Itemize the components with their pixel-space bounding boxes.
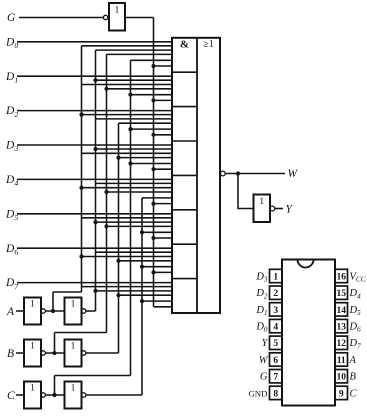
pin 13 (D6) bbox=[335, 319, 361, 333]
svg-text:11: 11 bbox=[337, 356, 346, 366]
inverter U8 (Y output) bbox=[254, 195, 275, 223]
svg-text:C: C bbox=[350, 388, 358, 399]
svg-text:1: 1 bbox=[30, 384, 35, 394]
node W junction bbox=[236, 171, 240, 175]
wire A true output bbox=[86, 310, 96, 312]
wire D3 to AND gate 4 bbox=[17, 144, 172, 146]
wire G input bbox=[19, 17, 104, 19]
wire D7 to AND gate 8 bbox=[17, 282, 172, 284]
svg-text:≥1: ≥1 bbox=[203, 39, 214, 50]
wire C true output bbox=[86, 394, 142, 396]
net G-bar (wiring + taps) bbox=[151, 18, 172, 307]
net B (wiring + taps) bbox=[116, 123, 172, 353]
svg-text:9: 9 bbox=[339, 389, 344, 399]
net B-bar (wiring + taps) bbox=[55, 54, 173, 353]
inverter U5 (B second) bbox=[65, 340, 86, 367]
svg-text:G: G bbox=[7, 12, 16, 24]
pin 4 (D0) bbox=[255, 319, 282, 333]
pin 7 (G) bbox=[260, 370, 282, 383]
package notch bbox=[298, 260, 314, 268]
pin 8 (GND) bbox=[248, 386, 282, 399]
svg-text:4: 4 bbox=[273, 323, 278, 333]
svg-text:1: 1 bbox=[115, 6, 120, 16]
svg-text:W: W bbox=[288, 168, 299, 180]
svg-text:GND: GND bbox=[248, 388, 267, 398]
svg-text:1: 1 bbox=[71, 342, 76, 352]
inverter U6 (C first) bbox=[24, 382, 45, 409]
svg-text:5: 5 bbox=[273, 339, 278, 349]
wire U1 output to G-bar bus bbox=[125, 17, 154, 19]
node B-bar junction bbox=[52, 351, 56, 355]
wire D0 to AND gate 1 bbox=[17, 41, 172, 43]
pin 3 (D1) bbox=[255, 303, 282, 317]
wire B-bar node bbox=[45, 352, 64, 354]
svg-text:G: G bbox=[260, 372, 268, 383]
inverter U7 (C second) bbox=[65, 382, 86, 409]
wire A-bar node bbox=[45, 310, 64, 312]
pin 10 (B) bbox=[335, 370, 357, 383]
svg-text:10: 10 bbox=[336, 373, 346, 383]
IC package body (DIP-16) bbox=[282, 260, 335, 406]
wire D6 to AND gate 7 bbox=[17, 247, 172, 249]
wire B true output bbox=[86, 352, 119, 354]
svg-text:C: C bbox=[7, 390, 15, 402]
wire B input bbox=[16, 352, 24, 354]
svg-text:8: 8 bbox=[273, 389, 278, 399]
svg-text:1: 1 bbox=[30, 300, 35, 310]
svg-text:1: 1 bbox=[71, 300, 76, 310]
node A-bar junction bbox=[51, 309, 55, 313]
svg-text:B: B bbox=[7, 348, 14, 360]
pin 2 (D2) bbox=[255, 286, 282, 300]
inverter U4 (B first) bbox=[24, 340, 45, 367]
OR output bubble bbox=[220, 171, 225, 176]
svg-text:1: 1 bbox=[259, 197, 264, 207]
pin 5 (Y) bbox=[262, 336, 282, 349]
svg-text:3: 3 bbox=[273, 306, 278, 316]
pin 15 (D4) bbox=[335, 286, 361, 300]
svg-text:16: 16 bbox=[336, 272, 346, 282]
svg-text:1: 1 bbox=[71, 384, 76, 394]
inverter U1 (strobe G) bbox=[103, 3, 125, 31]
net C-bar (wiring + taps) bbox=[55, 60, 173, 395]
svg-text:2: 2 bbox=[273, 289, 278, 299]
net C (wiring + taps) bbox=[140, 198, 172, 395]
wire D4 to AND gate 5 bbox=[17, 178, 172, 180]
wire to inverter U8 bbox=[238, 174, 254, 209]
pin 11 (A) bbox=[335, 353, 357, 366]
pin 9 (C) bbox=[335, 386, 358, 399]
net A (wiring + taps) bbox=[93, 50, 172, 311]
wire D5 to AND gate 6 bbox=[17, 213, 172, 215]
wire A input bbox=[16, 310, 24, 312]
pin 12 (D7) bbox=[335, 336, 361, 350]
svg-text:14: 14 bbox=[336, 306, 346, 316]
pin 1 (D3) bbox=[255, 269, 282, 283]
node C-bar junction bbox=[52, 393, 56, 397]
svg-text:B: B bbox=[350, 372, 357, 383]
wire D2 to AND gate 3 bbox=[17, 110, 172, 112]
wire D1 to AND gate 2 bbox=[17, 75, 172, 77]
svg-text:&: & bbox=[180, 39, 189, 51]
svg-text:A: A bbox=[349, 355, 357, 366]
svg-text:6: 6 bbox=[273, 356, 278, 366]
svg-text:W: W bbox=[259, 355, 269, 366]
inverter U3 (A second) bbox=[65, 298, 86, 325]
svg-text:13: 13 bbox=[336, 323, 346, 333]
pin 6 (W) bbox=[259, 353, 282, 366]
wire C-bar node bbox=[45, 394, 64, 396]
pin 14 (D5) bbox=[335, 303, 361, 317]
svg-text:15: 15 bbox=[336, 289, 346, 299]
pin 16 (VCC) bbox=[335, 269, 366, 283]
svg-text:12: 12 bbox=[336, 339, 346, 349]
net A-bar (wiring + taps) bbox=[53, 46, 172, 311]
svg-text:A: A bbox=[6, 306, 15, 318]
wire W output bbox=[225, 173, 285, 175]
AND-OR block (74151 gate array) bbox=[172, 38, 220, 313]
svg-text:1: 1 bbox=[273, 272, 278, 282]
wire Y output bbox=[275, 208, 283, 210]
inverter U2 (A first) bbox=[24, 298, 45, 325]
svg-text:1: 1 bbox=[30, 342, 35, 352]
svg-text:7: 7 bbox=[273, 373, 278, 383]
wire C input bbox=[16, 394, 24, 396]
